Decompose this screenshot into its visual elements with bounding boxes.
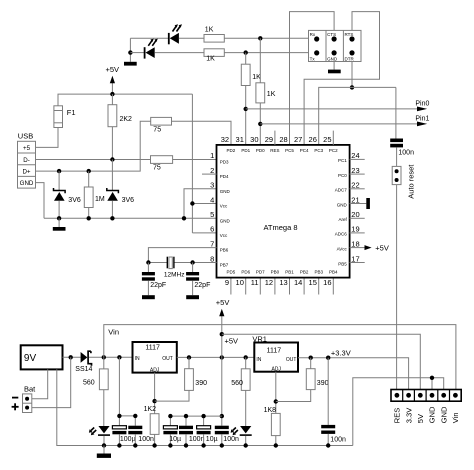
resistor 1K (pin 31 series): [241, 53, 250, 145]
wire +5V down to output caps: [221, 357, 223, 425]
svg-text:RES: RES: [270, 148, 279, 153]
svg-text:Pin1: Pin1: [415, 116, 429, 123]
wire RTS loop to chip pin 27: [304, 12, 379, 145]
wire pin 7 PB6 to crystal left node: [148, 248, 216, 263]
capacitor 22pF (left): [142, 263, 155, 296]
junction LED1 gnd: [102, 443, 106, 447]
svg-text:GND: GND: [439, 406, 448, 423]
svg-text:D-: D-: [23, 157, 30, 164]
auto reset jumper SJ: [392, 166, 401, 184]
svg-text:12MHz: 12MHz: [164, 272, 185, 279]
wire Vcc to pin 6: [192, 232, 216, 234]
capacitor 10u (output A): [163, 426, 177, 446]
resistor 1M: [84, 171, 93, 218]
junction crystal right / 22pF: [190, 260, 194, 264]
serial header (Rx/Tx CTS/GND RTS/DTR): [309, 30, 362, 61]
svg-text:OUT: OUT: [286, 357, 297, 363]
wire USB GND down to ground rail: [36, 183, 45, 219]
wire Vin net to Vin header pin: [104, 325, 456, 390]
junction cap C gnd: [168, 443, 172, 447]
svg-text:1K: 1K: [267, 91, 276, 98]
capacitor 100u (polarized): [112, 426, 126, 446]
svg-text:F1: F1: [67, 108, 76, 117]
junction 100n gnd: [133, 443, 137, 447]
svg-text:IN: IN: [256, 357, 261, 363]
svg-text:100n: 100n: [223, 436, 239, 443]
junction crystal left / 22pF: [146, 260, 150, 264]
wire ground rail up to GND header pins: [353, 378, 444, 446]
svg-text:CTS: CTS: [327, 32, 336, 37]
junction LED2 gnd: [244, 443, 248, 447]
resistor 1K2: [150, 414, 159, 446]
junction Vcc pin4: [190, 201, 194, 205]
junction cap D gnd: [184, 443, 188, 447]
svg-text:13: 13: [279, 278, 287, 287]
junction D+ / 1M: [87, 169, 91, 173]
svg-text:SS14: SS14: [75, 366, 92, 373]
svg-text:GND: GND: [337, 202, 348, 207]
junction cap F gnd: [220, 443, 224, 447]
svg-text:+5V: +5V: [225, 336, 239, 345]
svg-text:GND: GND: [327, 57, 338, 62]
svg-text:IN: IN: [135, 356, 140, 362]
svg-text:4: 4: [210, 195, 214, 204]
arrow Pin1: [417, 122, 427, 127]
svg-text:16: 16: [323, 278, 331, 287]
wire gnd to lower LED: [130, 52, 144, 54]
svg-text:1K: 1K: [206, 56, 215, 63]
wire 9V negative to ground rail: [57, 369, 353, 445]
wire VR1 OUT 3.3V line to header: [298, 358, 409, 390]
IC U1 ATmega8 body: [217, 145, 350, 278]
svg-text:PD5: PD5: [227, 269, 236, 274]
svg-text:15: 15: [309, 278, 317, 287]
svg-text:100µ: 100µ: [120, 436, 136, 443]
svg-text:GND: GND: [428, 406, 437, 423]
svg-text:22: 22: [351, 181, 359, 190]
wire Bat+ to diode anode node: [32, 357, 71, 407]
svg-text:6: 6: [210, 225, 214, 234]
svg-text:GND: GND: [220, 218, 231, 223]
+5V supply symbol (regulator): [216, 298, 230, 358]
svg-text:11: 11: [251, 278, 259, 287]
junction Rx wire / 1K vertical (pin30): [258, 36, 262, 40]
pin 25 stub (PC2): [332, 131, 334, 145]
wire D+ net: USB D+ up to 75R: [36, 121, 151, 171]
svg-text:PB1: PB1: [285, 269, 294, 274]
resistor 1K (pin 30 series): [256, 38, 265, 145]
svg-text:PD2: PD2: [227, 148, 236, 153]
svg-text:29: 29: [265, 135, 273, 144]
wire D- net: USB D- to 75R: [36, 159, 151, 161]
svg-text:ADC6: ADC6: [335, 232, 348, 237]
junction cap E top: [201, 414, 205, 418]
svg-text:1K2: 1K2: [144, 406, 157, 413]
svg-text:3: 3: [210, 181, 214, 190]
pin numbers bottom (9-16): [225, 278, 332, 287]
arrow Pin0: [417, 107, 427, 112]
wire Pin0 line: [246, 108, 418, 110]
svg-text:3V6: 3V6: [68, 197, 81, 204]
resistor 1K8: [271, 413, 280, 445]
junction +5V node: [220, 355, 224, 359]
svg-text:PB7: PB7: [220, 263, 229, 268]
wire Vcc to pin 4: [192, 203, 216, 205]
svg-text:GND: GND: [20, 180, 34, 187]
svg-text:1K: 1K: [252, 74, 261, 81]
svg-text:RES: RES: [393, 408, 402, 423]
svg-text:100n: 100n: [330, 436, 346, 443]
wire Vcc vertical from +5V rail to chip pins 4 and 6: [191, 94, 193, 233]
svg-text:1K: 1K: [205, 27, 214, 34]
svg-text:PC5: PC5: [285, 148, 294, 153]
junction ADJ / 390 feedback: [152, 399, 156, 403]
svg-text:Auto reset: Auto reset: [407, 164, 416, 199]
svg-text:PD6: PD6: [241, 269, 250, 274]
svg-text:1K8: 1K8: [264, 407, 277, 414]
wire DTR node to chip pin 26: [319, 87, 396, 144]
svg-text:390: 390: [317, 380, 329, 387]
svg-text:Pin0: Pin0: [415, 100, 429, 107]
resistor 390 (5V feedback): [155, 357, 194, 401]
svg-text:27: 27: [294, 135, 302, 144]
svg-text:PD7: PD7: [256, 269, 265, 274]
junction 100n (3.3V) gnd: [326, 443, 330, 447]
capacitor 100n (output A): [179, 426, 193, 446]
resistor 390 (3.3V feedback): [276, 358, 315, 402]
svg-text:ATmega 8: ATmega 8: [263, 223, 297, 232]
wire lower LED to 1K: [155, 52, 204, 54]
svg-text:75: 75: [153, 165, 161, 172]
resistor 2K2: [108, 94, 117, 159]
svg-text:14: 14: [294, 278, 302, 287]
svg-text:12: 12: [265, 278, 273, 287]
junction 9V / Bat+: [69, 355, 73, 359]
svg-text:22pF: 22pF: [194, 282, 210, 289]
svg-text:3.3V: 3.3V: [404, 408, 413, 423]
wire diode cathode to regulator IN: [89, 356, 133, 358]
capacitor 10u (output B): [197, 426, 211, 446]
svg-text:1117: 1117: [267, 347, 282, 354]
right side pin stubs (24-17): [350, 159, 367, 262]
junction gnd zener1: [57, 216, 61, 220]
svg-text:PD4: PD4: [220, 174, 229, 179]
ground symbol (top LEDs): [124, 62, 137, 66]
wire 100n to auto reset jumper: [396, 147, 398, 166]
junction gnd 1M: [87, 216, 91, 220]
svg-text:PB6: PB6: [220, 248, 229, 253]
ground symbol (bottom rail): [97, 446, 111, 458]
svg-text:PC3: PC3: [314, 148, 323, 153]
resistor 75 (D+ series): [151, 117, 172, 125]
wire pin 8 PB7 to crystal right node: [174, 262, 217, 264]
LED lower (TX): [144, 39, 158, 59]
svg-text:Vin: Vin: [108, 327, 119, 336]
svg-text:PC0: PC0: [338, 173, 347, 178]
svg-text:30: 30: [250, 135, 258, 144]
arrow +5V at pin 18 AVcc: [365, 245, 372, 250]
wire OUT 5V line: [177, 356, 255, 358]
svg-text:560: 560: [231, 380, 243, 387]
svg-text:+3.3V: +3.3V: [331, 349, 351, 358]
junction output caps line: [220, 414, 224, 418]
svg-text:31: 31: [236, 135, 244, 144]
svg-text:Tx: Tx: [310, 57, 316, 62]
battery 9V: [21, 345, 63, 369]
wire 75R to chip pin 32 PD2: [172, 121, 232, 145]
svg-text:8: 8: [210, 254, 214, 263]
svg-text:3V6: 3V6: [122, 197, 135, 204]
svg-text:2K2: 2K2: [120, 116, 133, 123]
junction Tx wire / 1K vertical (pin31): [244, 50, 248, 54]
pin numbers top (32-25): [221, 135, 332, 144]
USB connector J1: [18, 141, 36, 188]
junction Pin1 line start: [258, 122, 262, 126]
zener diode 3V6 (D-): [107, 160, 119, 219]
wire ground rail to chip pin 5: [44, 217, 217, 219]
zener diode 3V6 (D+): [54, 171, 66, 218]
junction cap D top: [184, 414, 188, 418]
wire 1K to header Rx: [224, 37, 308, 39]
resistor 1K (lower): [204, 49, 224, 57]
junction D+ / zener 3V6: [57, 169, 61, 173]
svg-text:100n: 100n: [138, 436, 154, 443]
junction 1K8 gnd: [274, 443, 278, 447]
wire auto reset net down to RES header pin: [396, 185, 398, 390]
svg-text:PD0: PD0: [256, 148, 265, 153]
wire input caps feed: [119, 357, 135, 425]
svg-text:PC2: PC2: [329, 148, 338, 153]
junction +5V rail / 2K2: [110, 92, 114, 96]
svg-text:RTS: RTS: [345, 32, 354, 37]
svg-text:DTR: DTR: [345, 57, 355, 62]
junction caps top B: [133, 414, 137, 418]
svg-text:100n: 100n: [398, 150, 414, 157]
wire 9V output to diode: [63, 356, 81, 358]
svg-text:ADJ: ADJ: [150, 367, 160, 373]
label minus: [12, 397, 18, 399]
fuse F1: [54, 106, 63, 128]
svg-text:PB3: PB3: [314, 269, 323, 274]
junction Vin tap / 560: [102, 355, 106, 359]
svg-text:390: 390: [195, 380, 207, 387]
resistor 1K (upper): [204, 35, 224, 43]
svg-text:1: 1: [210, 151, 214, 160]
junction 390 (3.3V) tap: [309, 356, 313, 360]
resistor 75 (D- series): [151, 156, 173, 164]
svg-text:VR1: VR1: [252, 334, 267, 343]
regulator VR1 1117 (3.3V): [254, 343, 298, 373]
capacitor 22pF (right): [186, 263, 199, 296]
LED upper (RX): [168, 24, 182, 44]
svg-text:18: 18: [351, 239, 359, 248]
svg-text:+5V: +5V: [216, 298, 230, 307]
svg-text:Vcc: Vcc: [220, 233, 228, 238]
svg-text:5V: 5V: [416, 414, 425, 423]
svg-text:5: 5: [210, 210, 214, 219]
svg-text:100n: 100n: [189, 436, 205, 443]
svg-text:17: 17: [351, 254, 359, 263]
capacitor 100n (input): [128, 426, 142, 446]
junction cap E gnd: [201, 443, 205, 447]
wire upper LED to 1K: [179, 37, 204, 39]
svg-text:28: 28: [279, 135, 287, 144]
svg-text:9: 9: [225, 278, 229, 287]
wire F1 top to +5V rail: [58, 94, 192, 106]
svg-text:23: 23: [351, 166, 359, 175]
wire crystal left node: [148, 262, 167, 264]
svg-text:21: 21: [351, 195, 359, 204]
svg-text:Aref: Aref: [339, 217, 348, 222]
wire 1K to header Tx: [224, 52, 308, 54]
svg-text:Vin: Vin: [451, 412, 460, 423]
junction gnd zener2: [110, 216, 114, 220]
svg-text:GND: GND: [220, 189, 231, 194]
wire +5V to 5V header pin: [222, 334, 420, 389]
svg-text:OUT: OUT: [162, 356, 173, 362]
svg-text:7: 7: [210, 239, 214, 248]
svg-text:2: 2: [210, 166, 214, 175]
svg-text:ADC7: ADC7: [335, 188, 348, 193]
svg-text:ADJ: ADJ: [271, 367, 281, 373]
pin names left column: [220, 159, 231, 267]
wire DTR down: [351, 62, 353, 88]
crystal 12MHz: [167, 257, 174, 269]
wire output caps line: [170, 416, 221, 426]
svg-text:75: 75: [153, 127, 161, 134]
ground symbol (serial header): [328, 62, 341, 74]
svg-text:AVcc: AVcc: [337, 246, 348, 251]
label plus: [12, 403, 19, 410]
junction 390 tap: [187, 355, 191, 359]
svg-text:PD3: PD3: [220, 159, 229, 164]
wire CTS loop to chip pin 28: [290, 12, 335, 145]
LED power (Vin): [89, 426, 110, 446]
wire LED cathodes to ground (top): [129, 38, 131, 62]
svg-text:+5: +5: [23, 145, 31, 152]
capacitor 100n (output B): [215, 426, 229, 446]
svg-text:10µ: 10µ: [169, 436, 181, 443]
junction pin3 branch: [182, 216, 186, 220]
junction Pin0 line start: [244, 107, 248, 111]
svg-text:D+: D+: [22, 169, 30, 176]
wire 75R to chip pin 1 PD3: [173, 159, 217, 161]
connector Bat: [23, 394, 32, 413]
pin numbers left (1-8): [210, 151, 214, 263]
svg-text:560: 560: [83, 379, 95, 386]
regulator 1117 (5V): [133, 342, 177, 373]
junction DTR node: [350, 85, 354, 89]
wire VR1 ADJ down: [275, 372, 277, 414]
LED power (5V): [231, 426, 252, 446]
junction 560 (5V LED) tap: [244, 355, 248, 359]
junction cap C top: [168, 414, 172, 418]
svg-text:+5V: +5V: [106, 65, 120, 74]
pins 9-16 stubs: [231, 279, 333, 295]
ground symbol (USB area): [53, 218, 66, 230]
wire USB +5 to fuse F1: [36, 128, 59, 148]
svg-text:1117: 1117: [145, 345, 160, 352]
resistor 560 (5V LED): [241, 357, 250, 426]
svg-text:10: 10: [236, 278, 244, 287]
svg-text:PC1: PC1: [338, 158, 347, 163]
pin names top row: [227, 148, 339, 153]
wire ADJ down: [154, 373, 156, 414]
capacitor 100n (3.3V): [321, 358, 335, 446]
pin 29 stub (RES): [274, 131, 276, 145]
svg-text:25: 25: [323, 135, 331, 144]
junction 100n (3.3V) tap: [326, 356, 330, 360]
pin names right column: [335, 158, 348, 266]
svg-text:22pF: 22pF: [150, 282, 166, 289]
svg-text:20: 20: [351, 210, 359, 219]
svg-text:19: 19: [351, 225, 359, 234]
junction lower LED / gnd vertical: [128, 50, 132, 54]
pin numbers right (24-17): [351, 151, 359, 263]
ground symbol (22pF right): [186, 295, 199, 299]
junction GND pin branch: [430, 376, 434, 380]
svg-text:26: 26: [309, 135, 317, 144]
junction +5V branch to header: [220, 332, 224, 336]
svg-text:PB0: PB0: [271, 269, 280, 274]
capacitor 100n (auto reset): [390, 139, 403, 148]
wire Bat- to 9V bottom: [32, 369, 48, 398]
junction VR1 ADJ / 390: [274, 399, 278, 403]
pin names bottom row: [227, 269, 339, 274]
svg-text:Vcc: Vcc: [220, 204, 228, 209]
+5V supply symbol (top left): [106, 65, 120, 94]
junction input caps tap: [117, 355, 121, 359]
svg-text:PD1: PD1: [241, 148, 250, 153]
power header (RES 3.3V 5V GND GND Vin): [391, 390, 461, 402]
svg-text:PB2: PB2: [300, 269, 309, 274]
pin 2 stub (PD4): [202, 173, 217, 175]
svg-text:24: 24: [351, 151, 359, 160]
wire gnd rail branch to chip pin 3: [184, 189, 217, 219]
svg-text:Bat: Bat: [24, 384, 36, 393]
diode SS14: [81, 351, 92, 366]
svg-text:Rx: Rx: [310, 32, 316, 37]
resistor 560 (Vin LED): [99, 357, 108, 426]
wire Pin1 line: [260, 123, 417, 125]
wire gnd to upper LED: [130, 37, 168, 39]
ground symbol (22pF left): [142, 295, 155, 299]
pin 21 termination bar: [366, 198, 370, 209]
svg-text:PB4: PB4: [329, 269, 338, 274]
svg-text:PB5: PB5: [338, 261, 347, 266]
svg-text:10µ: 10µ: [206, 436, 218, 443]
junction D- / 2K2 / zener: [110, 157, 114, 161]
svg-text:PC4: PC4: [300, 148, 309, 153]
junction 100u gnd: [117, 443, 121, 447]
svg-text:1M: 1M: [95, 196, 105, 203]
junction 1K2 gnd: [152, 443, 156, 447]
svg-text:32: 32: [221, 135, 229, 144]
junction caps top A: [117, 414, 121, 418]
svg-text:9V: 9V: [24, 353, 37, 364]
wire DTR node to 100n: [395, 87, 397, 138]
svg-text:USB: USB: [18, 132, 33, 141]
svg-text:+5V: +5V: [375, 244, 389, 253]
